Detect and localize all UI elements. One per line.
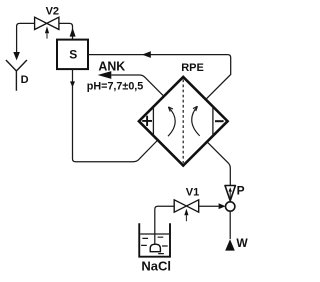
suction strainer dome (150, 244, 161, 252)
separator S (57, 40, 88, 70)
ANK outlet arrow (98, 71, 112, 79)
polarity - (215, 120, 224, 122)
wire from valve V2 right down to separator S (59, 23, 73, 39)
svg-text:RPE: RPE (181, 62, 204, 74)
circulation arrow right (192, 106, 200, 136)
electrode chord left (152, 107, 154, 136)
svg-text:NaCl: NaCl (141, 259, 171, 274)
svg-text:V1: V1 (186, 187, 199, 199)
polarity + (142, 116, 152, 126)
svg-text:pH=7,7±0,5: pH=7,7±0,5 (87, 81, 144, 93)
svg-text:D: D (21, 74, 29, 86)
flow arrow down from S (70, 81, 75, 87)
electrode chord right (212, 107, 214, 136)
svg-text:V2: V2 (46, 5, 59, 17)
ejector nozzle (225, 186, 235, 201)
flow arrow into drain (13, 52, 20, 60)
ANK outlet wire from RPE upper-left edge (111, 75, 163, 95)
nozzle flow arrow up (229, 187, 232, 191)
NaCl tank (139, 223, 170, 257)
valve V1 stem arrow (184, 209, 188, 216)
drain funnel D (6, 60, 27, 91)
membrane dashed centerline (182, 79, 184, 163)
wire return line from RPE upper-right edge into S (88, 55, 231, 99)
wire from NaCl tank to valve V1 (155, 206, 174, 244)
svg-text:W: W (236, 236, 248, 250)
wire from valve V1 into ejector (199, 205, 219, 207)
wire from S bottom to RPE lower-left edge (73, 69, 158, 162)
liquid surface (140, 233, 169, 235)
valve V2 stem arrow (45, 26, 49, 33)
valve V2 (35, 17, 59, 29)
water inlet arrow up (225, 239, 235, 250)
flow arrow toward S (142, 51, 151, 58)
svg-text:S: S (69, 47, 77, 61)
flow arrow up toward V2 (70, 28, 76, 37)
svg-text:P: P (237, 183, 245, 197)
circulation arrow left (168, 107, 175, 136)
water inlet W wire (229, 211, 231, 239)
flow arrow into ejector (219, 203, 226, 209)
wire from RPE lower-right edge down to ejector P (207, 142, 230, 186)
svg-text:ANK: ANK (98, 59, 125, 73)
ejector pump P body (226, 202, 235, 211)
liquid dashes (141, 237, 168, 253)
electrolyzer RPE diamond (139, 77, 228, 166)
wire from valve V2 left to drain D (17, 23, 35, 52)
valve V1 (174, 200, 199, 212)
